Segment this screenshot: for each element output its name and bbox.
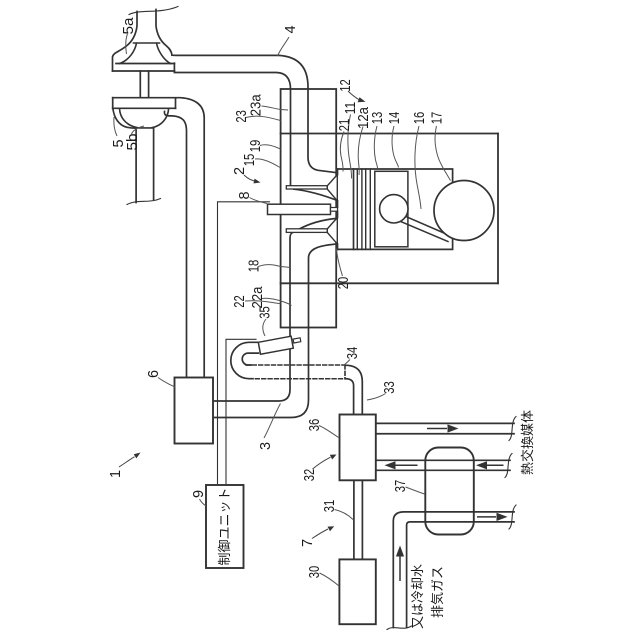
leader 22a [262, 298, 292, 305]
arrow leader 2 [244, 175, 256, 181]
pipe 4 bottom wall into intake runner left wall [174, 73, 290, 186]
arrow riser up [399, 556, 401, 581]
leader 31 [335, 510, 354, 520]
svg-text:37: 37 [393, 480, 409, 493]
leader 33 [367, 394, 386, 401]
piston pin [380, 195, 408, 223]
arrow bottom pipe right [477, 516, 496, 518]
svg-text:18: 18 [247, 260, 263, 273]
flow arrows [385, 424, 508, 581]
turbine 5b turbine hub [120, 108, 169, 128]
leader 17 [435, 126, 450, 181]
box 30 [339, 559, 375, 624]
sensor 35 body [258, 336, 293, 354]
heat exchange medium middle pipe [376, 460, 510, 470]
turbine 5b base right edge [175, 99, 177, 109]
svg-text:35: 35 [258, 306, 274, 319]
pipe 33 inner wall [345, 379, 353, 415]
sensor pipe inner U [242, 353, 258, 365]
svg-text:熱交換媒体: 熱交換媒体 [520, 410, 535, 475]
leader 30 [320, 573, 340, 586]
compressor 5a inlet break line [129, 7, 178, 15]
dashed passage 34 [246, 365, 345, 379]
exhaust runner left wall / pipe 3 top wall [213, 233, 293, 401]
svg-text:30: 30 [307, 566, 323, 579]
svg-text:又は冷却水: 又は冷却水 [410, 564, 425, 629]
svg-text:9: 9 [191, 490, 207, 498]
turbine 5b base bottom line [113, 107, 176, 109]
svg-text:34: 34 [345, 347, 361, 360]
svg-text:6: 6 [146, 370, 162, 378]
svg-text:5a: 5a [121, 17, 137, 35]
arrow top pipe right [427, 428, 447, 430]
intake valve 21 stem [286, 186, 327, 189]
leader 5a [126, 34, 128, 54]
bottom pipe end break [509, 505, 516, 529]
leader 19 [260, 145, 281, 149]
svg-text:32: 32 [302, 469, 318, 482]
piston body [375, 171, 408, 247]
leader 23a [262, 106, 289, 110]
engine block 11 top edge [281, 133, 498, 135]
arrow leader 32 [313, 457, 331, 469]
injector 8 tip [331, 208, 338, 212]
leader 12a [358, 127, 363, 176]
leader 35 [263, 319, 266, 336]
fire deck segments [337, 169, 339, 249]
exhaust port upper wall [299, 218, 337, 229]
turbo shaft [140, 71, 148, 98]
compressor 5a base right edge [173, 63, 175, 71]
leader 8 [250, 198, 268, 204]
svg-text:21: 21 [337, 119, 353, 132]
piston 14 crown [353, 169, 355, 249]
leader 21 [340, 132, 344, 172]
turbine 5b outlet break line [127, 199, 161, 205]
connecting rod 16 [397, 214, 452, 242]
svg-text:制御ユニット: 制御ユニット [217, 487, 232, 565]
exhaust valve 20 stem [286, 229, 327, 233]
leader 15 [255, 159, 280, 168]
leader 18 [259, 265, 292, 268]
compressor 5a inlet pipe left wall with flare [113, 12, 138, 72]
arrow leader 1 [119, 457, 135, 467]
svg-text:23: 23 [234, 110, 250, 123]
arrow leader 7 [312, 529, 328, 539]
leader 4 [278, 37, 290, 56]
leader 20 [337, 249, 343, 277]
middle pipe end break [505, 454, 512, 478]
leader 11 [348, 115, 352, 179]
cylinder bore 13 box [338, 169, 453, 249]
svg-text:7: 7 [300, 539, 316, 547]
intake manifold column 23 [281, 89, 337, 328]
leader 13 [374, 126, 377, 169]
leader 9 [200, 499, 207, 506]
svg-text:8: 8 [237, 191, 253, 199]
arrow leaders [119, 91, 366, 539]
turbine 5b base left edge [112, 98, 114, 109]
leader 16 [415, 126, 421, 209]
exhaust runner right wall / pipe 3 bottom wall [213, 244, 337, 418]
svg-text:3: 3 [258, 442, 274, 450]
pipe 31 [354, 480, 363, 559]
leader 23 [246, 116, 281, 120]
svg-text:20: 20 [336, 277, 352, 290]
exhaust gas riser pipe [393, 512, 514, 628]
turbine 5b outlet pipe right wall [153, 128, 155, 200]
pipe 4 compressor to intake elbow top wall [172, 55, 337, 173]
intake valve 21 head [327, 175, 337, 201]
turbine 5b outer left trumpet into outlet pipe left wall [113, 109, 136, 203]
injector 8 wire [218, 202, 270, 485]
injector 8 body [268, 204, 331, 214]
compressor 5a base bottom [113, 70, 175, 72]
svg-text:排気ガス: 排気ガス [430, 566, 445, 618]
svg-text:14: 14 [387, 112, 403, 125]
turbine inlet elbow inner wall [164, 112, 186, 378]
pipe 33 outer wall [345, 365, 362, 414]
engine block bottom edge [281, 282, 498, 284]
svg-text:33: 33 [382, 381, 398, 394]
turbine 5b base top edge merging into inlet elbow outer wall [113, 98, 205, 378]
svg-text:23a: 23a [249, 93, 265, 116]
leader 14 [392, 126, 398, 168]
leader lines [114, 34, 451, 586]
heat exchanger 37 [425, 448, 474, 535]
riser pipe bottom break [387, 626, 412, 630]
intake port lower wall [294, 189, 337, 200]
svg-text:22a: 22a [250, 286, 266, 309]
box 6 [175, 378, 214, 444]
sensor 35 nipple [293, 338, 301, 343]
leader 3 [264, 404, 281, 439]
compressor 5a base top line [116, 63, 174, 65]
arrow middle pipe left inner [395, 464, 418, 466]
svg-text:22: 22 [232, 295, 248, 308]
leader 34 [344, 360, 351, 366]
sensor 35 wire [226, 339, 256, 485]
svg-text:4: 4 [283, 25, 299, 33]
svg-text:16: 16 [412, 112, 428, 125]
svg-text:19: 19 [248, 140, 264, 153]
exhaust valve 20 head [327, 218, 337, 244]
arrow leader 12 [348, 91, 360, 100]
compressor 5a impeller hub [120, 43, 171, 64]
svg-text:5b: 5b [125, 134, 141, 151]
leader 37 [406, 487, 425, 494]
leader 36 [319, 426, 339, 438]
compressor 5a inlet pipe right wall with flare [156, 10, 172, 56]
engine block right edge [497, 134, 499, 284]
top pipe end break [509, 417, 516, 441]
svg-text:15: 15 [242, 154, 258, 167]
svg-text:36: 36 [307, 419, 323, 432]
leader 5b [132, 126, 145, 134]
svg-text:2: 2 [232, 167, 248, 175]
leader 6 [158, 378, 175, 388]
control unit 9 box [206, 485, 244, 568]
crankshaft 17 [434, 181, 494, 241]
leader 5 [114, 117, 117, 136]
svg-text:31: 31 [322, 500, 338, 513]
arrow middle pipe left outer [487, 464, 504, 466]
svg-text:13: 13 [370, 112, 386, 125]
reference number labels (rotated) [108, 17, 446, 579]
piston rings 12a [357, 169, 370, 249]
leader 22 [245, 301, 281, 304]
japanese texts [217, 410, 535, 629]
svg-text:1: 1 [108, 470, 124, 478]
heat exchange medium top pipe [376, 423, 514, 433]
sensor pipe outer U [231, 342, 259, 378]
svg-text:12: 12 [338, 79, 354, 92]
box 36 [340, 415, 376, 481]
svg-text:17: 17 [430, 112, 446, 125]
